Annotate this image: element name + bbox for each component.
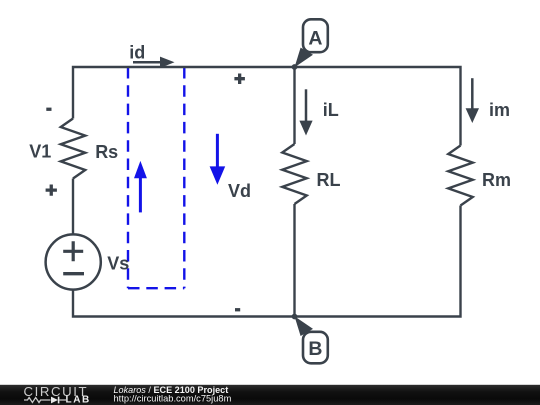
CircuitLab logo	[24, 384, 91, 405]
node B callout	[295, 316, 328, 363]
polarity + (Vd, top)	[234, 74, 245, 85]
resistor Rm	[448, 146, 473, 206]
svg-text:B: B	[308, 338, 322, 360]
svg-text:im: im	[489, 100, 510, 120]
wire top (node A rail)	[73, 67, 461, 146]
svg-text:http://circuitlab.com/c75ju8m: http://circuitlab.com/c75ju8m	[114, 394, 232, 404]
svg-text:Vs: Vs	[107, 254, 129, 274]
polarity - (Vd, bottom)	[235, 308, 240, 311]
svg-text:RL: RL	[317, 170, 341, 190]
voltage arrow Vd (blue, down)	[210, 134, 226, 185]
wire Rs to V1	[72, 179, 74, 235]
current arrow im	[466, 78, 479, 123]
current arrow id	[133, 57, 175, 68]
svg-text:id: id	[129, 43, 145, 63]
polarity - (V1, top)	[46, 108, 51, 111]
footer bar	[0, 385, 540, 405]
voltage source V1	[46, 234, 101, 289]
resistor Rs	[61, 119, 86, 179]
svg-text:Rm: Rm	[482, 170, 511, 190]
wire bottom (node B rail)	[73, 206, 461, 317]
current arrow iL	[299, 89, 312, 135]
svg-text:V1: V1	[29, 142, 51, 162]
svg-text:Vd: Vd	[228, 181, 251, 201]
node A callout	[295, 19, 328, 67]
svg-text:Rs: Rs	[95, 142, 118, 162]
diode loop dashed box (blue)	[128, 67, 184, 288]
current arrow (blue, up, diode loop)	[134, 161, 147, 213]
wire middle branch upper	[293, 67, 295, 144]
node A dot	[292, 64, 298, 70]
wire middle branch lower	[293, 204, 295, 317]
svg-text:iL: iL	[323, 100, 339, 120]
polarity + (V1, bottom)	[46, 185, 57, 196]
svg-text:LAB: LAB	[66, 394, 91, 405]
resistor RL	[282, 144, 307, 204]
svg-text:A: A	[308, 28, 322, 50]
node B dot	[292, 314, 298, 320]
